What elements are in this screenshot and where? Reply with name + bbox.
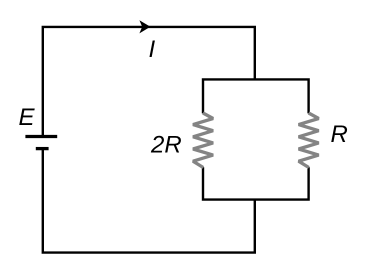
svg-text:R: R [331, 121, 348, 148]
wire: left side up from battery +, top wire, right side down to parallel top node [43, 27, 255, 137]
battery E negative plate (short) [36, 147, 49, 150]
resistor 2R zigzag [193, 113, 213, 168]
wire: parallel box top edge with branch leads down to both resistors [203, 79, 309, 113]
battery E positive plate (long) [25, 135, 57, 138]
current arrow on top wire [139, 20, 150, 33]
svg-text:I: I [149, 36, 156, 63]
wire: down from battery -, bottom wire, up to parallel bottom node [43, 148, 255, 252]
svg-text:2R: 2R [150, 131, 182, 158]
svg-text:E: E [19, 104, 36, 131]
resistor R zigzag [299, 113, 319, 168]
wire: parallel box bottom edge with branch leads up to both resistors [203, 167, 309, 199]
